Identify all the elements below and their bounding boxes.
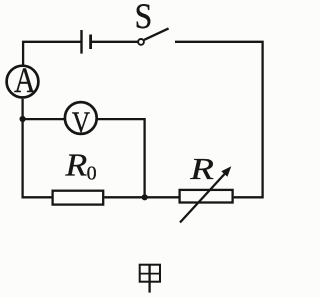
svg-text:S: S (135, 0, 153, 37)
svg-text:V: V (72, 105, 90, 139)
wire: voltmeter right, corner, down to bottom junction (98, 119, 145, 197)
battery short plate (negative) (89, 35, 92, 50)
switch S lever (open) (144, 28, 168, 39)
battery long plate (positive) (80, 30, 82, 54)
rheostat R arrowhead (221, 166, 231, 177)
甲 box outline (140, 265, 160, 282)
node: bottom junction dot (142, 194, 148, 200)
wire: switch to top-right corner, right side down, to rheostat right terminal (175, 42, 263, 198)
wire: battery to switch (92, 41, 138, 43)
wire: R0 right terminal to rheostat left terminal (104, 196, 178, 198)
svg-text:0: 0 (87, 163, 97, 185)
ammeter A1 circle (7, 66, 39, 98)
rheostat R arrow shaft (180, 173, 226, 223)
caption 甲 (jiǎ) drawn with strokes (140, 264, 160, 293)
rheostat R box (180, 190, 233, 203)
node: left junction dot (20, 116, 26, 122)
voltmeter V1 circle (65, 102, 97, 134)
甲 middle horizontal stroke (140, 273, 160, 275)
svg-text:R: R (64, 148, 87, 183)
switch S pivot circle (138, 39, 144, 45)
svg-text:R: R (189, 152, 214, 186)
甲 center vertical stroke (148, 264, 150, 293)
svg-text:A: A (14, 61, 36, 100)
wire: ammeter bottom down left side to bottom-left corner and R0 left terminal (23, 99, 52, 197)
resistor R0 box (53, 191, 104, 205)
wire: top-left corner to battery positive (23, 42, 81, 65)
wire: left junction to voltmeter (23, 118, 64, 120)
